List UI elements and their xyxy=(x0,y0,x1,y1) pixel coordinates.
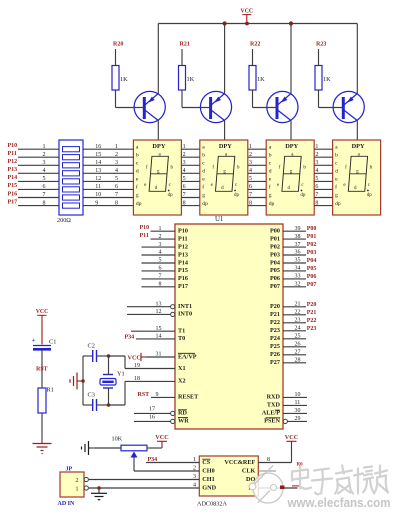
svg-text:X2: X2 xyxy=(178,378,186,385)
svg-text:dp: dp xyxy=(234,193,240,198)
svg-text:12: 12 xyxy=(95,176,101,182)
svg-text:g: g xyxy=(335,193,338,199)
U1 pin 5 P14 xyxy=(142,258,188,267)
U2 pin 6 DO xyxy=(246,476,255,483)
junction at JP ground tap xyxy=(97,486,101,490)
svg-text:7: 7 xyxy=(249,192,252,198)
svg-text:P23: P23 xyxy=(307,326,317,332)
ground at potentiometer xyxy=(82,441,96,455)
svg-text:11: 11 xyxy=(295,400,301,406)
U1 pin 22 P21 (net P21) xyxy=(270,310,316,319)
svg-text:1: 1 xyxy=(115,144,118,150)
resistor R20 1K xyxy=(112,41,128,107)
svg-text:22: 22 xyxy=(295,310,301,316)
display DPY3 (7-segment) xyxy=(266,140,314,215)
wire input row 2 to resistor network xyxy=(18,156,59,158)
svg-text:38: 38 xyxy=(295,234,301,240)
svg-text:4: 4 xyxy=(43,168,46,174)
U2 pin 2 CH0 (from potentiometer wiper) xyxy=(134,466,215,475)
svg-text:3: 3 xyxy=(249,160,252,166)
wire collector of Q4 to display xyxy=(356,121,358,141)
svg-text:7: 7 xyxy=(115,192,118,198)
junction on rail at Q2 emitter xyxy=(223,21,227,25)
svg-text:P04: P04 xyxy=(307,258,317,264)
svg-text:8: 8 xyxy=(43,200,46,206)
svg-text:f: f xyxy=(136,184,138,191)
wire input row 8 to resistor network xyxy=(18,205,59,207)
IC U1 (MCU) xyxy=(175,216,283,429)
U1 pin 24 P23 (net P23) xyxy=(270,326,316,335)
IC U2 ADC0832 xyxy=(197,456,258,507)
svg-text:5: 5 xyxy=(115,176,118,182)
svg-text:15: 15 xyxy=(156,326,162,332)
svg-text:P21: P21 xyxy=(307,310,317,316)
svg-text:P15: P15 xyxy=(178,267,188,274)
svg-text:5: 5 xyxy=(249,176,252,182)
wire segment row 6 between DPY1 and DPY2 xyxy=(181,188,199,190)
svg-text:33: 33 xyxy=(295,274,301,280)
svg-text:3: 3 xyxy=(183,160,186,166)
svg-text:12: 12 xyxy=(156,309,162,315)
svg-text:P23: P23 xyxy=(270,327,280,334)
svg-text:32: 32 xyxy=(295,282,301,288)
resistor R21 1K xyxy=(179,41,195,107)
svg-text:RESET: RESET xyxy=(178,394,199,401)
U1 pin 16 WR xyxy=(134,415,189,425)
wire segment row 3 between DPY1 and DPY2 xyxy=(181,164,199,166)
U1 pin 12 INT0 xyxy=(127,309,192,318)
svg-text:P02: P02 xyxy=(270,243,280,250)
svg-text:7: 7 xyxy=(159,274,162,280)
U1 pin 32 P07 (net P07) xyxy=(270,282,316,291)
U1 pin 19 X1 xyxy=(125,363,186,372)
wire segment row 4 between DPY1 and DPY2 xyxy=(181,172,199,174)
svg-text:3: 3 xyxy=(193,474,196,480)
U1 pin 13 INT1 xyxy=(127,301,192,310)
svg-text:6: 6 xyxy=(159,266,162,272)
wire segment row 6 between DPY3 and DPY4 xyxy=(314,188,332,190)
svg-text:P00: P00 xyxy=(270,228,280,235)
U2 pin 4 GND xyxy=(89,483,217,492)
svg-text:dp: dp xyxy=(335,201,341,207)
U1 pin 23 P22 (net P22) xyxy=(270,318,316,327)
svg-text:37: 37 xyxy=(295,242,301,248)
svg-text:g: g xyxy=(269,193,272,199)
svg-text:VCC: VCC xyxy=(241,8,254,14)
svg-text:9: 9 xyxy=(156,392,159,398)
watermark logo lever xyxy=(255,466,274,485)
U1 pin 30 ALE/P xyxy=(262,408,307,417)
svg-text:P03: P03 xyxy=(307,250,317,256)
svg-text:21: 21 xyxy=(295,302,301,308)
svg-text:d: d xyxy=(202,169,205,175)
svg-text:35: 35 xyxy=(295,258,301,264)
wire row 1 RN to DPY1 xyxy=(83,148,133,150)
svg-text:dp: dp xyxy=(269,201,275,207)
svg-text:b: b xyxy=(202,152,205,158)
wire segment row 5 between DPY1 and DPY2 xyxy=(181,180,199,182)
U1 pin 39 P00 (net P00) xyxy=(270,226,316,235)
svg-text:RST: RST xyxy=(36,367,48,373)
wire input row 5 to resistor network xyxy=(18,180,59,182)
svg-text:27: 27 xyxy=(295,350,301,356)
watermark elecfans logo circle xyxy=(253,473,283,503)
svg-text:8: 8 xyxy=(183,200,186,206)
svg-text:6: 6 xyxy=(315,184,318,190)
svg-text:8: 8 xyxy=(267,457,270,463)
watermark logo left contact circle xyxy=(249,483,256,490)
wire collector of Q2 to display xyxy=(224,121,226,141)
svg-text:P25: P25 xyxy=(270,343,280,350)
svg-text:www.elecfans.com: www.elecfans.com xyxy=(287,495,391,510)
U1 pin 10 RXD xyxy=(267,392,307,401)
svg-text:5: 5 xyxy=(183,176,186,182)
svg-text:1: 1 xyxy=(249,144,252,150)
svg-text:dp: dp xyxy=(168,193,174,198)
svg-text:4: 4 xyxy=(183,168,186,174)
resistor R23 1K xyxy=(315,41,331,107)
wire row 7 RN to DPY1 xyxy=(83,197,133,199)
ground at JP pin 1 wire xyxy=(91,488,107,500)
crystal Y1 xyxy=(100,356,125,405)
svg-text:5: 5 xyxy=(43,176,46,182)
wire row 6 RN to DPY1 xyxy=(83,188,133,190)
ground (red) below R1 xyxy=(33,440,52,454)
svg-text:3: 3 xyxy=(43,160,46,166)
svg-text:f: f xyxy=(269,184,271,191)
U1 pin 21 P20 (net P20) xyxy=(270,302,316,311)
wire collector of Q3 to display xyxy=(290,121,292,141)
wire segment row 4 between DPY2 and DPY3 xyxy=(248,172,266,174)
svg-text:10: 10 xyxy=(95,192,101,198)
svg-text:8: 8 xyxy=(159,282,162,288)
svg-text:18: 18 xyxy=(134,376,140,382)
svg-text:f: f xyxy=(202,184,204,191)
svg-text:f: f xyxy=(335,184,337,191)
svg-text:C3: C3 xyxy=(88,392,95,399)
svg-text:2: 2 xyxy=(183,152,186,158)
svg-text:WR: WR xyxy=(178,418,189,425)
svg-text:P20: P20 xyxy=(307,302,317,308)
svg-text:VCC&REF: VCC&REF xyxy=(224,459,255,466)
svg-text:EA/VP: EA/VP xyxy=(178,353,197,360)
svg-text:26: 26 xyxy=(295,342,301,348)
U1 pin 34 P05 (net P05) xyxy=(270,266,316,275)
svg-text:DPY: DPY xyxy=(285,143,298,150)
U2 pin 5 DI xyxy=(248,485,297,492)
svg-text:1: 1 xyxy=(159,226,162,232)
U1 pin 38 P01 (net P01) xyxy=(270,234,316,243)
svg-text:VCC: VCC xyxy=(155,434,168,441)
svg-text:P05: P05 xyxy=(270,267,280,274)
junction at crystal ground xyxy=(81,379,85,383)
display DPY2 (7-segment) xyxy=(200,140,248,215)
wire input row 4 to resistor network xyxy=(18,172,59,174)
U1 pin 28 P27 xyxy=(270,358,306,367)
svg-text:P21: P21 xyxy=(270,311,280,318)
capacitor C1 (electrolytic) xyxy=(32,337,57,388)
connector JP (AD IN) xyxy=(58,467,89,508)
svg-text:P03: P03 xyxy=(270,251,280,258)
potentiometer RP 10K xyxy=(95,436,162,472)
svg-text:P16: P16 xyxy=(8,191,18,197)
wire input row 7 to resistor network xyxy=(18,197,59,199)
U1 pin 8 P17 xyxy=(142,282,188,291)
display DPY1 (7-segment) xyxy=(133,140,181,215)
wire segment row 1 between DPY1 and DPY2 xyxy=(181,148,199,150)
wire segment row 1 between DPY2 and DPY3 xyxy=(248,148,266,150)
svg-text:P12: P12 xyxy=(178,243,188,250)
svg-text:11: 11 xyxy=(95,184,101,190)
svg-text:25: 25 xyxy=(295,334,301,340)
svg-text:DPY: DPY xyxy=(152,143,165,150)
svg-text:1: 1 xyxy=(193,457,196,463)
svg-text:2: 2 xyxy=(249,152,252,158)
U1 pin 18 X2 xyxy=(125,376,186,385)
transistor Q3 (PNP) xyxy=(267,91,298,122)
svg-text:R21: R21 xyxy=(180,41,190,47)
svg-text:5: 5 xyxy=(159,258,162,264)
svg-text:1: 1 xyxy=(43,144,46,150)
svg-text:PSEN: PSEN xyxy=(264,418,280,425)
svg-text:CLK: CLK xyxy=(242,468,256,475)
svg-text:4: 4 xyxy=(193,483,196,489)
U1 pin 7 P16 xyxy=(142,274,188,283)
watermark text 电子发烧友 (stylized) xyxy=(292,466,388,495)
svg-text:3: 3 xyxy=(315,160,318,166)
svg-text:RST: RST xyxy=(138,392,150,398)
svg-text:CS: CS xyxy=(202,459,210,466)
svg-text:16: 16 xyxy=(95,144,101,150)
U1 pin 27 P26 xyxy=(270,350,306,359)
svg-text:7: 7 xyxy=(43,192,46,198)
svg-text:TXD: TXD xyxy=(267,402,281,409)
svg-text:4: 4 xyxy=(159,250,162,256)
U1 pin 4 P13 xyxy=(142,250,188,259)
power VCC at ADC pin 8 xyxy=(285,434,298,441)
svg-text:16: 16 xyxy=(149,415,155,421)
svg-text:2: 2 xyxy=(159,234,162,240)
svg-text:dp: dp xyxy=(367,193,373,198)
wire VCC rail xyxy=(158,23,357,25)
U1 pin 35 P04 (net P04) xyxy=(270,258,316,267)
svg-text:1K: 1K xyxy=(187,76,195,83)
wire row 4 RN to DPY1 xyxy=(83,172,133,174)
resistor R1 xyxy=(38,387,54,440)
svg-text:▬▬: ▬▬ xyxy=(292,483,300,488)
svg-text:P07: P07 xyxy=(270,283,280,290)
svg-text:19: 19 xyxy=(134,363,140,369)
svg-text:VCC: VCC xyxy=(128,355,141,362)
svg-text:P27: P27 xyxy=(270,359,280,366)
svg-text:30: 30 xyxy=(295,408,301,414)
svg-text:P34: P34 xyxy=(125,334,135,340)
svg-text:P07: P07 xyxy=(307,282,317,288)
svg-text:b: b xyxy=(335,152,338,158)
svg-text:3: 3 xyxy=(159,242,162,248)
svg-text:28: 28 xyxy=(295,358,301,364)
U1 pin 11 TXD xyxy=(267,400,307,409)
svg-text:P00: P00 xyxy=(307,226,317,232)
svg-text:7: 7 xyxy=(315,192,318,198)
svg-text:P06: P06 xyxy=(270,275,280,282)
svg-text:dp: dp xyxy=(300,193,306,198)
wire emitter of Q3 to rail xyxy=(290,24,292,94)
svg-text:P04: P04 xyxy=(270,259,280,266)
svg-text:8: 8 xyxy=(315,200,318,206)
transistor Q4 (PNP) xyxy=(333,91,364,122)
svg-text:4: 4 xyxy=(315,168,318,174)
svg-text:1: 1 xyxy=(76,487,79,493)
wire row 3 RN to DPY1 xyxy=(83,164,133,166)
wire base of Q3 to resistor R22 xyxy=(253,107,278,109)
svg-text:AD IN: AD IN xyxy=(58,501,76,507)
watermark red dot right of logo xyxy=(280,486,285,490)
wire row 5 RN to DPY1 xyxy=(83,180,133,182)
junction on rail at Q3 emitter xyxy=(289,21,293,25)
wire base of Q1 to resistor R20 xyxy=(116,107,145,109)
U1 pin 17 RD xyxy=(134,407,187,417)
svg-text:P14: P14 xyxy=(8,175,18,181)
svg-text:d: d xyxy=(269,169,272,175)
wire emitter of Q4 to rail xyxy=(356,24,358,94)
svg-text:P24: P24 xyxy=(270,335,280,342)
svg-text:1: 1 xyxy=(315,144,318,150)
capacitor C2 xyxy=(83,343,108,363)
wire input row 1 to resistor network xyxy=(18,148,59,150)
U1 pin 2 P11 xyxy=(140,233,188,242)
svg-text:P13: P13 xyxy=(8,167,18,173)
svg-text:31: 31 xyxy=(156,352,162,358)
transistor Q1 (PNP) xyxy=(134,91,165,122)
power VCC at C1 xyxy=(36,309,49,345)
svg-text:C1: C1 xyxy=(49,339,56,346)
U1 pin 26 P25 xyxy=(270,342,306,351)
resistor R22 1K xyxy=(249,41,265,107)
svg-text:g: g xyxy=(202,193,205,199)
svg-text:2: 2 xyxy=(76,478,79,484)
svg-text:RD: RD xyxy=(178,410,187,417)
wire segment row 7 between DPY2 and DPY3 xyxy=(248,197,266,199)
wire emitter of Q1 to rail xyxy=(157,24,159,94)
svg-text:dp: dp xyxy=(202,201,208,207)
wire segment row 8 between DPY1 and DPY2 xyxy=(181,205,199,207)
svg-text:U1: U1 xyxy=(215,216,223,223)
transistor Q2 (PNP) xyxy=(200,91,231,122)
svg-text:2: 2 xyxy=(43,152,46,158)
svg-text:15: 15 xyxy=(95,152,101,158)
wire crystal top to X1 xyxy=(109,356,126,369)
ground (red) at crystal xyxy=(70,373,83,390)
svg-text:13: 13 xyxy=(156,301,162,307)
svg-text:P22: P22 xyxy=(270,319,280,326)
svg-text:dp: dp xyxy=(136,201,142,207)
svg-text:6: 6 xyxy=(43,184,46,190)
svg-text:4: 4 xyxy=(249,168,252,174)
svg-text:P14: P14 xyxy=(178,259,188,266)
wire segment row 2 between DPY1 and DPY2 xyxy=(181,156,199,158)
capacitor C3 xyxy=(83,392,108,412)
svg-text:P26: P26 xyxy=(270,351,280,358)
svg-text:P13: P13 xyxy=(178,251,188,258)
U1 pin 1 P10 xyxy=(140,225,188,234)
svg-text:P16: P16 xyxy=(178,275,188,282)
svg-text:d: d xyxy=(335,169,338,175)
svg-text:5: 5 xyxy=(315,176,318,182)
svg-text:CH0: CH0 xyxy=(202,468,214,475)
wire segment row 7 between DPY1 and DPY2 xyxy=(181,197,199,199)
svg-text:36: 36 xyxy=(295,250,301,256)
svg-text:R22: R22 xyxy=(250,41,260,47)
svg-text:2: 2 xyxy=(115,152,118,158)
svg-text:1K: 1K xyxy=(257,76,265,83)
svg-text:ADC0832A: ADC0832A xyxy=(197,500,227,507)
svg-text:7: 7 xyxy=(183,192,186,198)
U1 pin 3 P12 xyxy=(142,242,188,251)
wire segment row 8 between DPY2 and DPY3 xyxy=(248,205,266,207)
svg-text:24: 24 xyxy=(295,326,301,332)
svg-text:2: 2 xyxy=(193,466,196,472)
wire row 2 RN to DPY1 xyxy=(83,156,133,158)
wire segment row 3 between DPY3 and DPY4 xyxy=(314,164,332,166)
svg-text:39: 39 xyxy=(295,226,301,232)
svg-text:P10: P10 xyxy=(140,225,150,231)
watermark logo right contact circle xyxy=(271,485,277,491)
U1 pin 15 T1 xyxy=(131,326,185,335)
svg-text:10K: 10K xyxy=(112,436,123,443)
power VCC at EA/VP xyxy=(128,353,147,362)
wire segment row 6 between DPY2 and DPY3 xyxy=(248,188,266,190)
U1 pin 36 P03 (net P03) xyxy=(270,250,316,259)
svg-text:14: 14 xyxy=(95,160,101,166)
svg-text:8: 8 xyxy=(249,200,252,206)
svg-text:1K: 1K xyxy=(120,76,128,83)
svg-text:8: 8 xyxy=(115,200,118,206)
wire segment row 3 between DPY2 and DPY3 xyxy=(248,164,266,166)
svg-text:P17: P17 xyxy=(178,283,188,290)
svg-text:DPY: DPY xyxy=(219,143,232,150)
svg-text:1K: 1K xyxy=(323,76,331,83)
wire segment row 2 between DPY2 and DPY3 xyxy=(248,156,266,158)
junction on DI wire xyxy=(280,486,284,490)
svg-text:200Ω: 200Ω xyxy=(57,217,71,224)
svg-text:ALE/P: ALE/P xyxy=(262,410,280,417)
svg-text:b: b xyxy=(269,152,272,158)
U1 pin 14 T0 (net P34) xyxy=(125,334,186,343)
power VCC at potentiometer xyxy=(155,434,168,448)
svg-text:34: 34 xyxy=(295,266,301,272)
svg-text:DPY: DPY xyxy=(352,143,365,150)
svg-text:INT0: INT0 xyxy=(178,311,192,318)
U1 pin 29 PSEN xyxy=(264,416,307,425)
wire emitter of Q2 to rail xyxy=(224,24,226,94)
svg-text:R20: R20 xyxy=(113,41,123,47)
U2 pin 8 VCC&REF xyxy=(224,441,291,466)
svg-text:4: 4 xyxy=(115,168,118,174)
wire base of Q4 to resistor R23 xyxy=(319,107,344,109)
svg-text:9: 9 xyxy=(95,200,98,206)
power VCC (top rail) xyxy=(241,8,254,23)
svg-text:P34: P34 xyxy=(148,457,158,463)
U1 pin 25 P24 xyxy=(270,334,306,343)
svg-text:23: 23 xyxy=(295,318,301,324)
svg-text:CH1: CH1 xyxy=(202,476,214,483)
wire segment row 1 between DPY3 and DPY4 xyxy=(314,148,332,150)
svg-text:g: g xyxy=(136,193,139,199)
svg-text:d: d xyxy=(136,169,139,175)
svg-text:P01: P01 xyxy=(270,235,280,242)
junction crystal bottom node xyxy=(107,403,111,407)
